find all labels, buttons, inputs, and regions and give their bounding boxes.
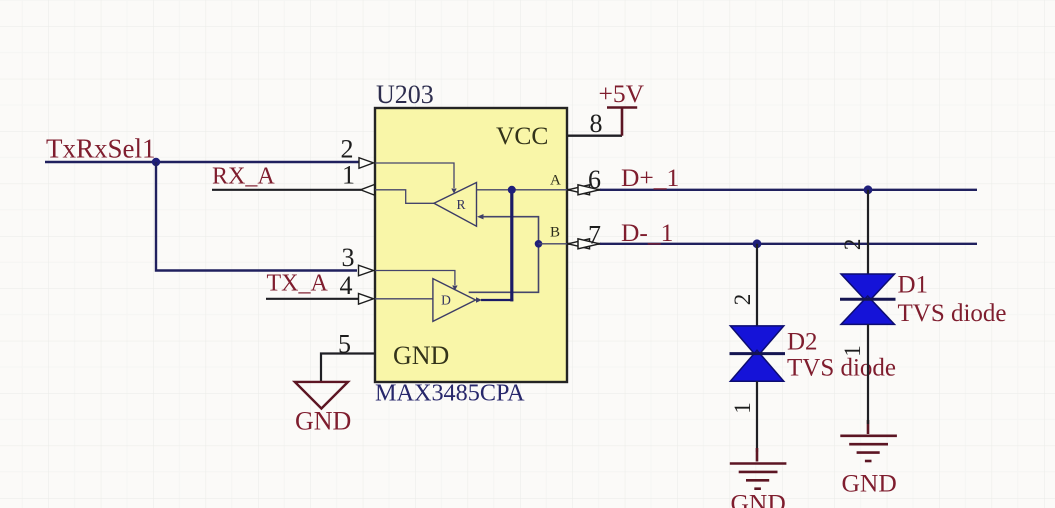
svg-text:2: 2 bbox=[341, 134, 354, 163]
node D- junction at D2 bbox=[753, 239, 762, 248]
svg-text:2: 2 bbox=[730, 294, 755, 306]
svg-text:6: 6 bbox=[588, 165, 601, 194]
wire D+ net bbox=[600, 189, 977, 191]
svg-text:1: 1 bbox=[342, 161, 355, 190]
wire D2 bottom bbox=[756, 381, 758, 452]
pin 7 bidirectional arrow bbox=[568, 239, 590, 249]
diode D2 TVS bbox=[730, 326, 786, 381]
svg-text:RX_A: RX_A bbox=[212, 164, 275, 190]
svg-text:TxRxSel1: TxRxSel1 bbox=[46, 134, 156, 164]
svg-text:B: B bbox=[550, 225, 560, 241]
diode D1 TVS bbox=[840, 274, 896, 324]
op-amp U203 body bbox=[375, 108, 567, 382]
svg-text:R: R bbox=[456, 197, 465, 212]
op-amp receiver R bbox=[434, 183, 477, 227]
ground GND triangle at pin 5 bbox=[295, 382, 348, 409]
wire D2 top bbox=[756, 244, 758, 326]
node TxRxSel1 junction bbox=[152, 158, 160, 166]
svg-text:D-_1: D-_1 bbox=[621, 218, 673, 247]
wire D1 top bbox=[867, 190, 869, 274]
svg-text:U203: U203 bbox=[376, 80, 434, 109]
pin 3 arrow bbox=[359, 265, 374, 276]
wire TX_A to pin 4 bbox=[266, 298, 358, 300]
wire internal pin4 to driver input bbox=[375, 298, 433, 300]
wire internal B line bbox=[539, 243, 568, 245]
node internal B junction bbox=[535, 240, 543, 248]
wire driver output arrow bbox=[476, 297, 482, 302]
pin 4 arrow bbox=[359, 294, 374, 305]
svg-text:1: 1 bbox=[840, 345, 865, 357]
ground GND earth for D2 bbox=[730, 448, 787, 489]
svg-text:TX_A: TX_A bbox=[267, 270, 329, 296]
power +5V symbol bbox=[607, 108, 637, 136]
wire internal receiver B input bbox=[477, 214, 484, 219]
wire internal thick A vertical bbox=[510, 190, 513, 302]
svg-text:D1: D1 bbox=[898, 272, 929, 299]
svg-text:4: 4 bbox=[340, 271, 353, 300]
wire pin 6 stub bbox=[567, 189, 601, 191]
svg-text:GND: GND bbox=[731, 489, 786, 508]
svg-text:GND: GND bbox=[295, 406, 351, 435]
ground GND earth for D1 bbox=[840, 420, 897, 461]
svg-text:VCC: VCC bbox=[496, 121, 548, 150]
svg-text:TVS diode: TVS diode bbox=[898, 300, 1007, 327]
wire D- net bbox=[600, 243, 977, 245]
wire D1 bottom bbox=[867, 324, 869, 424]
svg-text:3: 3 bbox=[342, 243, 355, 272]
svg-text:7: 7 bbox=[588, 220, 601, 249]
pin 2 arrow bbox=[359, 158, 374, 169]
node internal A junction bbox=[508, 186, 516, 194]
wire pin 7 stub bbox=[567, 243, 601, 245]
svg-text:D2: D2 bbox=[787, 329, 818, 356]
svg-text:A: A bbox=[550, 173, 561, 189]
wire TxRxSel1 vertical down to pin 3 bbox=[156, 162, 357, 271]
wire pin 5 to GND bbox=[321, 354, 375, 382]
wire internal A line bbox=[477, 189, 568, 191]
wire internal pin3 enable to driver bbox=[375, 271, 455, 286]
wire RX_A to pin 1 bbox=[212, 189, 361, 191]
svg-text:GND: GND bbox=[842, 469, 897, 498]
wire pin 8 to +5V bbox=[567, 134, 622, 136]
svg-text:TVS diode: TVS diode bbox=[787, 355, 896, 382]
pin 1 arrow bbox=[361, 185, 375, 196]
svg-text:D+_1: D+_1 bbox=[621, 163, 679, 192]
wire internal pin2 enable to receiver bbox=[375, 163, 454, 188]
svg-text:GND: GND bbox=[393, 341, 449, 370]
pin 6 bidirectional arrow bbox=[568, 185, 590, 195]
svg-text:8: 8 bbox=[590, 109, 603, 138]
svg-text:2: 2 bbox=[840, 239, 865, 251]
node D+ junction at D1 bbox=[864, 185, 873, 194]
svg-text:+5V: +5V bbox=[599, 79, 645, 108]
wire TxRxSel1 horizontal bbox=[45, 161, 360, 163]
wire internal pin1 to receiver output bbox=[375, 190, 434, 204]
svg-text:MAX3485CPA: MAX3485CPA bbox=[375, 380, 525, 407]
svg-text:1: 1 bbox=[730, 402, 755, 414]
transistor driver D bbox=[433, 279, 476, 322]
svg-text:5: 5 bbox=[338, 329, 351, 358]
svg-text:D: D bbox=[441, 293, 451, 308]
